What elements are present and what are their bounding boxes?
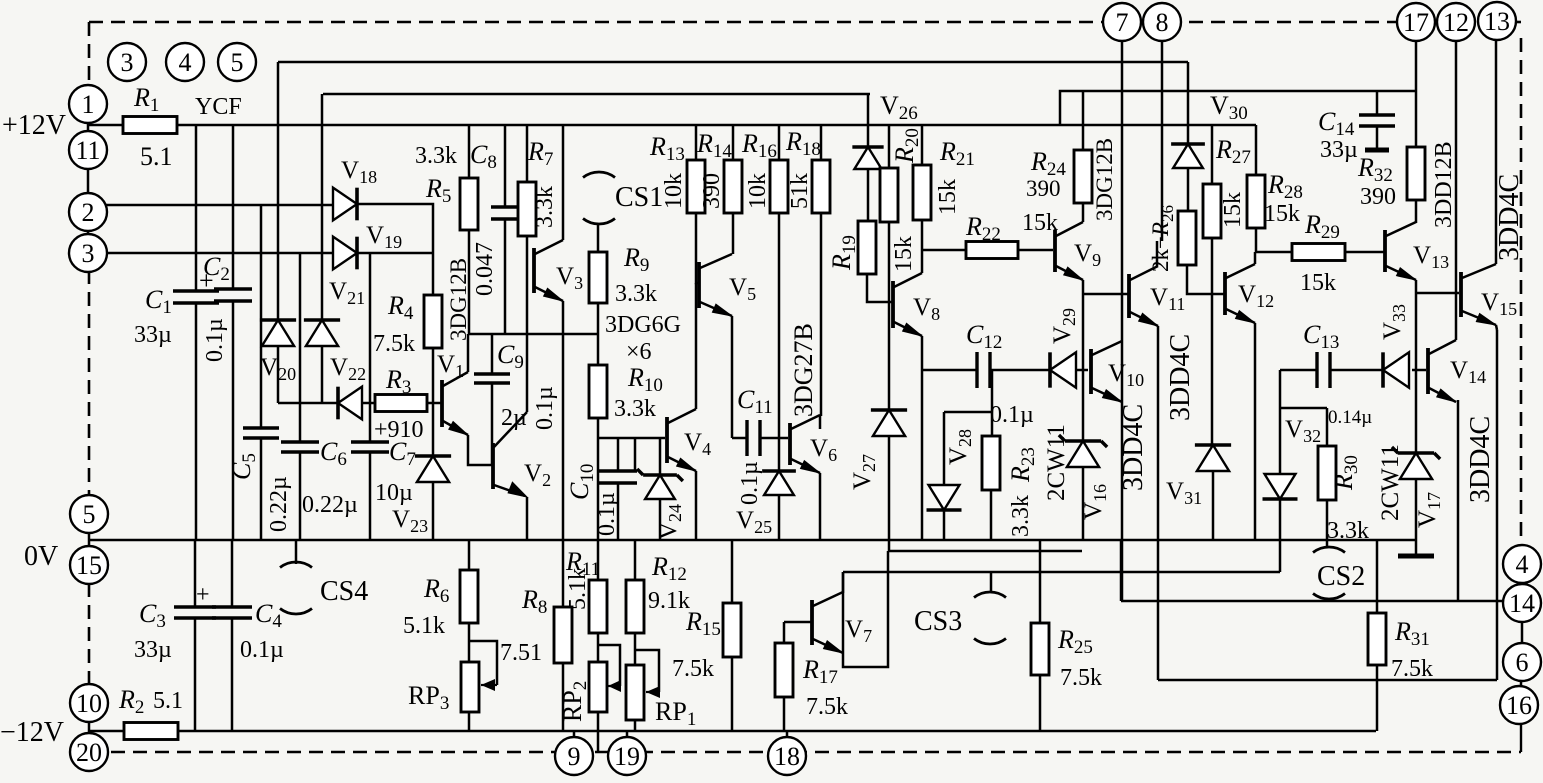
value 3.3k R9 <box>615 281 657 307</box>
svg-text:CS4: CS4 <box>320 576 368 607</box>
wire V24 stub <box>659 438 662 475</box>
wire RP2 wiper <box>598 645 620 686</box>
value 15k R19 <box>891 236 917 272</box>
value 7.5k R15 <box>672 656 714 682</box>
label RP3 <box>408 681 449 714</box>
svg-text:2µ: 2µ <box>501 405 527 431</box>
svg-text:51k: 51k <box>787 173 813 209</box>
terminal 4 (top float) <box>166 43 204 81</box>
resistor R5 <box>460 178 478 230</box>
wire V12 collector up <box>1254 252 1257 264</box>
label R25 <box>1057 625 1093 658</box>
wire line y91 right <box>1060 91 1416 125</box>
wire C10 stub1 <box>617 438 620 471</box>
wire circle5-15 chain <box>88 497 91 583</box>
label V11 <box>1150 284 1185 314</box>
label V4 <box>684 429 711 459</box>
wire V4 emitter down <box>695 471 698 540</box>
svg-text:3.3k: 3.3k <box>415 143 457 169</box>
terminal 3 (top float) <box>108 43 146 81</box>
wire y572 line <box>843 571 1280 574</box>
value 3.3k R30 <box>1327 518 1369 544</box>
wire R13 to V5 base <box>696 213 699 283</box>
label R7 <box>527 137 553 170</box>
resistor R26 <box>1178 211 1196 265</box>
capacitor C13 <box>1317 352 1330 388</box>
svg-text:3DG12B: 3DG12B <box>1092 138 1117 221</box>
label V5 <box>729 274 756 304</box>
value 3.3k R10 <box>614 396 656 422</box>
wire V12 emitter down <box>1254 323 1257 540</box>
wire V6 collector to R18 <box>819 416 822 429</box>
label R13 <box>649 132 685 165</box>
wire C14 bottom <box>1376 126 1379 148</box>
wire V16 bottom <box>1082 468 1085 540</box>
svg-text:12: 12 <box>1443 8 1469 37</box>
svg-text:0.1µ: 0.1µ <box>594 492 620 536</box>
current source CS4 <box>280 562 312 614</box>
wire C7 top <box>369 253 372 442</box>
wire V23 stub <box>432 403 435 456</box>
zener V16 <box>1059 435 1107 467</box>
svg-text:15k: 15k <box>1220 192 1246 228</box>
type 3DD4C V15 <box>1494 174 1525 261</box>
svg-text:3DG27B: 3DG27B <box>789 323 818 417</box>
wire V14 emitter <box>1457 400 1460 601</box>
svg-text:390: 390 <box>1026 176 1061 201</box>
wire C10 stub2 <box>634 438 637 471</box>
resistor R11 <box>589 580 607 633</box>
svg-text:15: 15 <box>76 551 102 580</box>
wire R31 top <box>1376 540 1379 613</box>
value 390 R14 <box>699 173 725 209</box>
wire R25 bottom <box>1039 675 1042 731</box>
svg-text:33µ: 33µ <box>134 322 172 348</box>
wire V5 base col down <box>695 283 698 409</box>
type 3DD4C V11 <box>1165 334 1196 421</box>
value 10k R16 <box>745 173 771 209</box>
label R18 <box>785 127 821 160</box>
wire R24 to V9 collector <box>1082 203 1085 222</box>
terminal 9 <box>555 737 593 775</box>
svg-text:3: 3 <box>121 48 134 77</box>
diode V23 <box>415 456 451 482</box>
wire V1 emitter to V2 base <box>468 435 493 465</box>
label R23 <box>1006 447 1039 483</box>
label V9 <box>1074 240 1101 270</box>
wire V30 to R26 <box>1187 168 1190 211</box>
resistor R27 <box>1203 184 1221 238</box>
plus C3 <box>196 582 210 608</box>
wire circle19 stub <box>626 731 629 738</box>
diode V26 <box>852 147 883 169</box>
ground bar <box>1398 554 1434 559</box>
resistor R32 <box>1407 147 1425 200</box>
terminal 19 <box>608 737 646 775</box>
svg-text:7: 7 <box>1116 8 1129 37</box>
diode V29 <box>1050 352 1076 387</box>
plus C2 <box>199 266 214 295</box>
transistor V13 <box>1385 222 1416 280</box>
wire C8 bottom <box>504 219 507 334</box>
capacitor C14 bottom bar <box>1365 148 1389 153</box>
value 0.22u C5 <box>266 476 292 532</box>
border right dashed <box>1520 38 1523 547</box>
svg-text:7.5k: 7.5k <box>672 656 714 682</box>
wire V15 emitter down <box>1496 325 1497 330</box>
RP2 wiper arrow <box>608 680 621 692</box>
value 0.1u C2 <box>202 318 228 362</box>
label R32 <box>1357 153 1393 186</box>
capacitor C12 <box>977 352 990 388</box>
wire R6 top <box>468 540 471 570</box>
wire C8 top <box>504 125 507 207</box>
label C3 <box>139 599 166 632</box>
resistor R24 <box>1074 150 1092 203</box>
label V20 <box>260 354 296 384</box>
wire V26 top <box>867 94 870 147</box>
svg-text:3DD4C: 3DD4C <box>1494 174 1525 261</box>
label C14 <box>1318 107 1355 140</box>
wire V26 to R19 <box>867 169 870 221</box>
label YCF <box>195 94 242 120</box>
svg-text:15k: 15k <box>1264 201 1300 227</box>
resistor R8 <box>554 607 572 663</box>
wire V27 bottom <box>888 437 891 551</box>
label C5 <box>227 453 260 480</box>
transistor V1 <box>442 372 468 435</box>
label V27 <box>849 454 879 490</box>
wire C6 top <box>299 253 302 442</box>
transistor V12 <box>1225 264 1255 323</box>
svg-text:16: 16 <box>1506 691 1532 720</box>
wire base node y250 <box>922 249 966 252</box>
wire line y94 <box>323 93 870 96</box>
wire V33 to V14 <box>1412 369 1426 372</box>
label RP2 <box>558 681 591 722</box>
type 3DG27B V6 <box>789 323 818 417</box>
wire RP2 bottom <box>597 712 600 752</box>
terminal 18 <box>768 737 806 775</box>
wire CS4 stub <box>295 540 298 564</box>
wire CS1 to R9 <box>597 223 600 252</box>
svg-text:0.1µ: 0.1µ <box>990 402 1034 428</box>
wire R27 top <box>1211 125 1214 184</box>
label R11 <box>565 547 600 580</box>
wire V18 to R4 col <box>357 204 433 295</box>
label R28 <box>1267 170 1303 203</box>
value 10k R13 <box>661 173 687 209</box>
capacitor C5 <box>243 428 279 438</box>
wire R7 top <box>526 125 529 182</box>
terminal 20 <box>70 733 108 771</box>
value 0.047 C8 <box>472 242 498 296</box>
label V1 <box>437 351 464 381</box>
wire V7 collector up <box>842 572 845 593</box>
label -12V <box>0 717 64 748</box>
value +910 R3 <box>374 417 424 443</box>
label CS4 <box>320 576 368 607</box>
svg-text:390: 390 <box>1360 184 1396 210</box>
label V21 <box>329 278 365 308</box>
wire R12 top <box>634 540 637 580</box>
value 7.5k R31 <box>1391 656 1433 682</box>
transistor V4 <box>667 409 696 471</box>
wire V20 bottom <box>277 346 280 403</box>
capacitor C11 <box>747 420 760 456</box>
label R4 <box>387 291 414 324</box>
svg-text:3DD4C: 3DD4C <box>1118 404 1149 491</box>
current source CS2 <box>1313 547 1345 599</box>
wire R20 bottom <box>888 222 891 250</box>
label R8 <box>521 585 547 618</box>
resistor R25 <box>1031 623 1049 675</box>
border left dashed <box>88 22 91 686</box>
wire C5 top <box>260 205 263 428</box>
wire V25 stub <box>778 438 781 471</box>
terminal 1 <box>69 85 107 123</box>
wire circle14-6 link <box>1521 622 1524 643</box>
label RP1 <box>655 697 696 730</box>
wire node2 line <box>104 204 333 207</box>
wire R30 bottom <box>1326 500 1329 548</box>
wire R8 top <box>562 540 565 607</box>
terminal 7 <box>1103 3 1141 41</box>
terminal 5 left <box>70 495 108 533</box>
terminal 17 <box>1397 3 1435 41</box>
label V23 <box>392 506 428 536</box>
wire circle11 chain <box>87 168 90 194</box>
current source CS1 <box>583 172 615 224</box>
wire y403 mid <box>362 402 375 405</box>
svg-text:+: + <box>199 266 214 295</box>
transistor V3 <box>534 240 563 301</box>
zener V17 <box>1392 447 1440 479</box>
svg-text:2: 2 <box>82 198 95 227</box>
svg-text:0.22µ: 0.22µ <box>302 492 358 518</box>
wire V7 base lead <box>784 621 812 624</box>
svg-text:5: 5 <box>83 500 96 529</box>
capacitor C8 <box>491 207 519 219</box>
svg-text:17: 17 <box>1403 8 1429 37</box>
resistor R16 <box>770 160 788 213</box>
label C12 <box>966 320 1002 353</box>
wire R23 bottom <box>990 490 993 540</box>
wire V8 emitter down <box>921 336 924 540</box>
value 0.1u C12 <box>990 402 1034 428</box>
wire V24 bottom <box>659 500 662 540</box>
wire V19 out <box>357 252 433 255</box>
resistor R23 <box>982 436 1000 490</box>
wire R11-RP2 <box>597 633 600 662</box>
svg-text:4: 4 <box>179 48 192 77</box>
resistor R6 <box>460 570 478 623</box>
border top dashed <box>89 21 1521 24</box>
label CS3 <box>914 606 962 637</box>
wire C2 column top <box>232 125 235 289</box>
svg-text:0.22µ: 0.22µ <box>266 476 292 532</box>
diode V28 <box>927 485 962 510</box>
label C4 <box>255 599 282 632</box>
wire y680 line <box>1158 679 1497 682</box>
label C2 <box>203 252 230 285</box>
transistor V15 <box>1461 264 1496 325</box>
RP3 wiper arrow <box>481 679 497 691</box>
value 0.1u mid <box>532 386 558 430</box>
wire circle18 stub <box>786 731 789 738</box>
wire V14 collector up <box>1455 40 1458 340</box>
transistor V9 <box>1055 222 1083 280</box>
capacitor C2 <box>214 289 252 301</box>
svg-text:9: 9 <box>568 742 581 771</box>
diode V21 <box>338 387 362 420</box>
wire C2 column bottom <box>232 301 235 540</box>
resistor R12 <box>626 580 644 633</box>
svg-text:9.1k: 9.1k <box>648 588 690 614</box>
label R20 <box>890 128 923 164</box>
terminal 4 right <box>1503 545 1541 583</box>
svg-text:15k: 15k <box>1300 270 1336 296</box>
value 33u C14 <box>1320 137 1358 163</box>
label C11 <box>737 385 773 418</box>
potentiometer RP2 <box>589 662 607 712</box>
wire V20 top <box>277 62 280 320</box>
svg-text:15k: 15k <box>891 236 917 272</box>
svg-text:33µ: 33µ <box>134 637 172 663</box>
label V7 <box>845 616 872 646</box>
value 3.3k R7 <box>532 186 558 228</box>
wire circle8 column <box>1161 40 1164 241</box>
svg-text:3DG12B: 3DG12B <box>446 258 471 341</box>
terminal 3 left <box>69 234 107 272</box>
capacitor C10 <box>599 471 637 483</box>
wire y294 to V11 <box>1083 293 1128 296</box>
label R31 <box>1394 617 1430 650</box>
label R3 <box>385 365 411 398</box>
terminal 12 <box>1437 3 1475 41</box>
wire V13 collector <box>1415 200 1418 223</box>
wire V29 to V10 <box>1076 369 1088 372</box>
wire R13 col top <box>695 125 698 160</box>
svg-text:CS1: CS1 <box>615 182 663 213</box>
terminal 11 <box>69 131 107 169</box>
label V26 <box>880 91 918 124</box>
label V25 <box>736 507 772 537</box>
wire y601 vert link <box>1120 540 1123 601</box>
type 3DG12B V1 <box>446 258 471 341</box>
resistor R4 <box>424 295 442 348</box>
label R17 <box>802 655 838 688</box>
value 10u C7 <box>375 480 413 506</box>
wire V18 anode <box>332 203 335 206</box>
value 9.1k R12 <box>648 588 690 614</box>
svg-text:3: 3 <box>82 239 95 268</box>
value 5.1k R6 <box>403 613 445 639</box>
wire R16 bottom long <box>778 213 781 438</box>
wire C9 top <box>491 334 494 374</box>
wire R16 col top <box>778 125 781 160</box>
label R2 <box>118 685 144 718</box>
label V16 <box>1080 484 1110 520</box>
wire RP3 wiper <box>469 641 497 685</box>
resistor R31 <box>1368 613 1386 665</box>
svg-text:8: 8 <box>1156 8 1169 37</box>
svg-text:0.1µ: 0.1µ <box>202 318 228 362</box>
type 3DG6G <box>605 312 681 338</box>
label C1 <box>145 285 172 318</box>
svg-text:15k: 15k <box>1022 210 1058 236</box>
wire V25 bottom <box>778 496 781 540</box>
svg-text:2CW11: 2CW11 <box>1377 444 1404 521</box>
svg-text:5.1k: 5.1k <box>403 613 445 639</box>
wire second 0V line <box>888 550 1082 553</box>
svg-text:15k: 15k <box>935 179 961 215</box>
label V17 <box>1414 492 1444 528</box>
svg-text:7.5k: 7.5k <box>806 694 848 720</box>
label V32 <box>1285 416 1321 446</box>
capacitor C9 <box>474 374 510 383</box>
wire y403 left <box>278 402 338 405</box>
value 51k R18 <box>787 173 813 209</box>
wire circle1 stub <box>87 87 90 132</box>
svg-text:10k: 10k <box>661 173 687 209</box>
wire V27 col top <box>888 250 891 410</box>
wire R32 top <box>1415 91 1418 147</box>
wire y370 mid <box>990 369 1050 372</box>
svg-text:3.3k: 3.3k <box>614 396 656 422</box>
transistor V8 <box>893 273 922 336</box>
svg-text:4: 4 <box>1516 550 1529 579</box>
wire V31 bottom <box>1212 472 1215 540</box>
capacitor C4 <box>212 607 252 618</box>
svg-text:11: 11 <box>75 136 100 165</box>
label V28 <box>945 429 975 465</box>
wire V28 jog <box>944 411 992 414</box>
wire R14 bottom to V5 collector <box>732 213 735 254</box>
value 5.1 R1 <box>140 142 173 171</box>
wire V8 collector up <box>921 220 924 273</box>
label R9 <box>623 243 649 276</box>
type 2CW11 V17 <box>1377 444 1404 521</box>
svg-text:3DD12B: 3DD12B <box>1431 141 1457 228</box>
svg-text:6: 6 <box>1516 648 1529 677</box>
svg-text:7.51: 7.51 <box>500 640 542 666</box>
wire node3 line <box>104 252 333 255</box>
wire C3 column top <box>194 540 197 607</box>
wire V7 loop <box>843 551 888 667</box>
wire C9 bottom <box>491 383 494 465</box>
resistor R20 <box>880 168 898 222</box>
value 7.5k R25 <box>1060 665 1102 691</box>
wire V6 emitter down <box>819 473 822 540</box>
label R12 <box>651 552 687 585</box>
current source CS3 <box>974 592 1006 644</box>
label CS1 <box>615 182 663 213</box>
svg-text:×6: ×6 <box>626 339 652 365</box>
wire y370 left <box>923 369 977 372</box>
label V12 <box>1238 281 1274 311</box>
value 33u C3 <box>134 637 172 663</box>
label R24 <box>1030 147 1066 180</box>
wire R19 to V8 base <box>867 274 893 302</box>
wire V1 collector up <box>467 334 470 372</box>
svg-text:18: 18 <box>774 742 800 771</box>
wire R3 to V1 base <box>427 402 442 405</box>
svg-text:10k: 10k <box>745 173 771 209</box>
value 5.1k R11 <box>565 568 591 610</box>
wire V30 col top <box>1187 62 1190 144</box>
resistor R22 <box>966 242 1018 259</box>
